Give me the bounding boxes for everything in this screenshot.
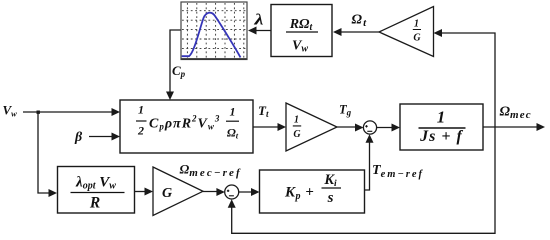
svg-text:λ: λ: [253, 12, 263, 29]
svg-text:G: G: [162, 186, 172, 201]
svg-text:G: G: [413, 32, 421, 43]
svg-text:1: 1: [437, 108, 446, 127]
svg-text:Js + f: Js + f: [419, 128, 463, 145]
svg-text:1: 1: [138, 103, 144, 117]
svg-text:2: 2: [137, 124, 144, 138]
svg-text:G: G: [293, 129, 301, 140]
svg-text:β: β: [74, 130, 83, 145]
svg-text:1: 1: [294, 114, 299, 125]
svg-text:1: 1: [230, 105, 236, 119]
svg-text:R: R: [89, 195, 100, 212]
svg-text:1: 1: [414, 18, 419, 29]
svg-text:s: s: [327, 190, 334, 206]
